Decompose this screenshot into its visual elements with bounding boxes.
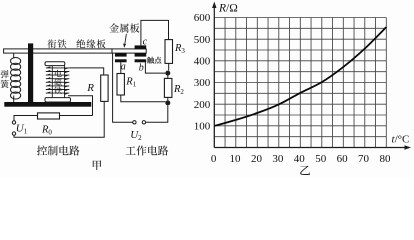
label 触点 (contact) — [147, 57, 161, 64]
resistor R — [101, 75, 108, 101]
svg-text:60: 60 — [337, 153, 349, 165]
wire coil bottom to R0 node — [68, 96, 93, 116]
label b — [139, 62, 144, 73]
x axis t — [214, 145, 411, 149]
plate c (upper fixed) — [135, 45, 147, 49]
svg-text:200: 200 — [194, 99, 211, 111]
svg-text:50: 50 — [315, 153, 327, 165]
x axis tick labels — [211, 153, 391, 165]
svg-text:R2: R2 — [173, 84, 184, 96]
y axis R — [212, 2, 216, 148]
svg-text:b: b — [139, 62, 144, 73]
moving plate right (on board) — [135, 53, 147, 56]
wire coil top to R — [69, 68, 103, 75]
svg-text:R: R — [86, 82, 94, 94]
fixed contact plate a — [115, 59, 127, 62]
label U1 — [16, 123, 28, 136]
label 金属板 (metal plate) — [109, 23, 139, 32]
wire board to U2 left — [113, 53, 133, 122]
svg-text:R3: R3 — [174, 43, 185, 55]
label R — [86, 82, 94, 94]
svg-text:U2: U2 — [130, 129, 142, 142]
svg-text:30: 30 — [272, 153, 284, 165]
armature bar (iron, left part) — [4, 49, 112, 53]
terminal U1 bottom — [12, 132, 15, 135]
graph grid — [214, 18, 386, 148]
node J2 (junction) — [165, 100, 170, 105]
electromagnet coil — [45, 62, 71, 102]
label R3 — [174, 43, 185, 55]
pivot post (black) — [28, 43, 33, 106]
svg-text:80: 80 — [379, 153, 391, 165]
resistor R0 — [38, 113, 60, 119]
svg-text:100: 100 — [194, 121, 211, 133]
terminal U2 left — [133, 121, 136, 124]
svg-text:400: 400 — [194, 56, 211, 68]
wire J2 to U2 right — [146, 105, 168, 122]
y axis label R/Ω — [218, 3, 238, 15]
y axis tick labels — [194, 12, 211, 132]
label U2 — [130, 129, 142, 142]
resistor R1 — [117, 74, 124, 96]
label 工作电路 (working circuit) — [126, 145, 169, 155]
label R0 — [41, 125, 52, 137]
svg-text:R/Ω: R/Ω — [218, 3, 238, 15]
label 绝缘板 (insulating board) — [76, 39, 105, 48]
label a — [121, 62, 126, 73]
wire plate b to node J1 — [145, 62, 165, 73]
svg-text:500: 500 — [194, 34, 211, 46]
wire plate a to R1 — [120, 62, 122, 73]
svg-text:U1: U1 — [16, 123, 28, 136]
x axis label t/°C — [392, 134, 410, 146]
label 控制电路 (control circuit) — [37, 145, 80, 155]
label 电磁铁 (electromagnet) — [54, 70, 62, 94]
node J1 (junction) — [165, 71, 170, 76]
label 弹簧 (spring) — [1, 70, 9, 88]
svg-text:600: 600 — [194, 12, 211, 24]
terminal U2 right — [142, 121, 145, 124]
label R2 — [173, 84, 184, 96]
wire R1 to node J2 — [121, 95, 166, 102]
spring — [11, 53, 21, 102]
wire J1 to R2 — [167, 76, 169, 79]
svg-text:R1: R1 — [125, 77, 136, 89]
wire U1 bottom to R — [14, 101, 104, 137]
label R1 — [125, 77, 136, 89]
label 衔铁 (armature) — [48, 39, 67, 48]
wire R2 to node J2 — [167, 97, 169, 100]
fixed contact plate b — [135, 59, 147, 62]
resistor R2 — [164, 78, 172, 97]
wire plate c up and over to R3 — [141, 20, 169, 45]
label 乙 (figure yi) — [300, 166, 310, 175]
arrow to metal plate — [123, 34, 126, 48]
svg-text:20: 20 — [251, 153, 263, 165]
moving plate left (on board) — [115, 53, 127, 56]
svg-text:R0: R0 — [41, 125, 52, 137]
terminal U1 top — [12, 121, 15, 124]
svg-text:0: 0 — [211, 153, 217, 165]
resistor R3 — [165, 40, 173, 64]
wire U1 plus to R0 — [14, 116, 38, 121]
svg-text:10: 10 — [230, 153, 242, 165]
label 甲 (figure jia) — [93, 160, 102, 170]
R vs t curve — [214, 27, 386, 126]
label c — [143, 36, 148, 47]
svg-text:a: a — [121, 62, 126, 73]
svg-text:300: 300 — [194, 77, 211, 89]
wire R3 to node J1 — [168, 63, 170, 70]
wire R0 to node — [60, 115, 93, 117]
svg-text:t/°C: t/°C — [392, 134, 410, 146]
insulating board (right part of bar) — [112, 49, 146, 53]
svg-text:c: c — [143, 36, 148, 47]
svg-text:40: 40 — [294, 153, 306, 165]
base bar (black) — [4, 102, 91, 107]
svg-text:70: 70 — [358, 153, 370, 165]
